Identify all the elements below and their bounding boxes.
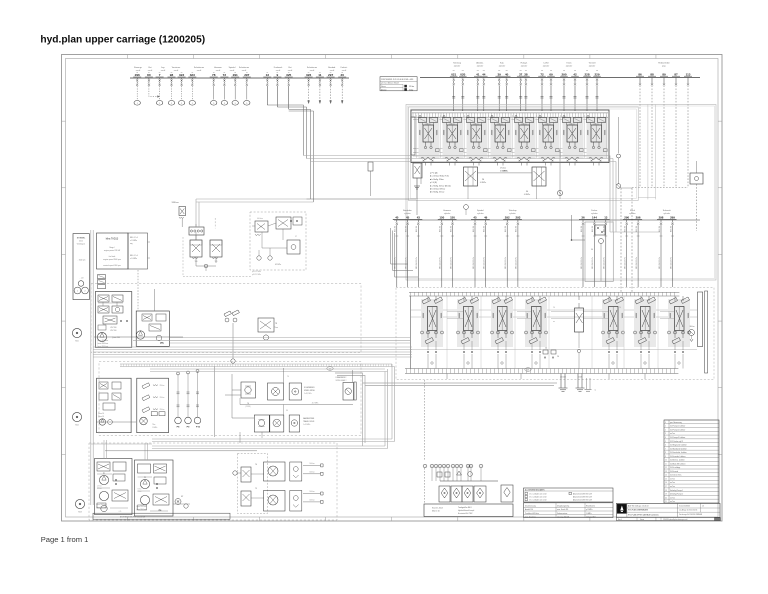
pilot group dashed boundary <box>182 237 184 276</box>
boundary notch lines right <box>647 105 649 200</box>
svg-text:av: av <box>234 72 236 74</box>
svg-text:MKS 334-39 kPa: MKS 334-39 kPa <box>450 257 452 269</box>
svg-text:290: 290 <box>624 215 629 219</box>
svg-text:MKS 334-39 kPa: MKS 334-39 kPa <box>592 257 594 269</box>
wire drop with hose coupling <box>136 86 138 100</box>
svg-text:12 l/min: 12 l/min <box>97 488 102 490</box>
small accumulator mid <box>368 162 373 171</box>
svg-text:144: 144 <box>592 215 597 219</box>
svg-text:1: 1 <box>77 291 78 293</box>
svg-text:Rev 0: Rev 0 <box>618 519 622 521</box>
svg-text:10: 10 <box>467 466 469 468</box>
block1 subplate boundary <box>409 107 639 201</box>
engine data box <box>128 233 148 269</box>
wire drop to coupler <box>246 86 248 100</box>
block2 outlet drop pair 3 <box>586 378 588 389</box>
valve block 2 bottom ladder rail <box>405 368 678 370</box>
pump band 2 dashed boundary <box>99 362 361 436</box>
svg-text:MKS 334: MKS 334 <box>659 226 661 232</box>
pump P5 extra internals <box>120 320 122 322</box>
valve section 5 block2 <box>608 296 610 301</box>
wire drop to coupler <box>234 86 236 100</box>
svg-text:Qmax 260: Qmax 260 <box>112 337 120 339</box>
svg-text:Verstell: Verstell <box>589 62 596 65</box>
oil cooler unit circled ports <box>423 464 427 467</box>
pilot supply elbow to coupling <box>196 198 311 200</box>
svg-text:MKS 334: MKS 334 <box>670 226 672 232</box>
svg-text:av: av <box>266 72 268 74</box>
valve section 4 block1 <box>491 116 493 118</box>
valve block 2 left end line <box>410 296 412 369</box>
svg-text:MKS 334-39 kPa: MKS 334-39 kPa <box>581 257 583 269</box>
block1 tank symbol left <box>414 186 420 189</box>
valve section 6 block1 <box>539 116 541 118</box>
fan check box 2 <box>290 491 302 512</box>
bottom return bus to pump band <box>152 438 392 440</box>
svg-text:zylinder: zylinder <box>477 212 484 215</box>
left pump group P5 housing <box>95 292 132 348</box>
pump band 1 dashed boundary <box>91 284 361 353</box>
tank staircase wire <box>335 373 365 446</box>
oil unit drop wires <box>431 468 433 481</box>
svg-text:1: 1 <box>159 103 160 105</box>
fan valve dashed group <box>238 454 268 514</box>
svg-text:MKS 334: MKS 334 <box>473 226 475 232</box>
wire drop with hose coupling <box>171 86 173 100</box>
svg-text:Qmax 260 l/min: Qmax 260 l/min <box>96 504 107 506</box>
valve section 7 block1 body <box>563 118 584 159</box>
svg-text:87: 87 <box>674 72 678 76</box>
top-left port header rail <box>130 77 349 79</box>
pilot wire down from rail <box>266 86 268 105</box>
svg-text:1 408: 1 408 <box>578 377 582 379</box>
svg-text:Page 1 from 1: Page 1 from 1 <box>41 535 89 544</box>
svg-text:34: 34 <box>286 410 288 412</box>
left supply riser wires <box>90 230 92 505</box>
svg-text:1: 1 <box>192 103 193 105</box>
svg-text:→ +Oil: → +Oil <box>79 278 85 280</box>
pump drive shaft line <box>94 336 183 338</box>
svg-text:020: 020 <box>460 72 465 76</box>
travel motor box row <box>254 415 269 432</box>
gauge left middle <box>72 412 81 421</box>
svg-text:MKS 334-39 kPa: MKS 334-39 kPa <box>505 257 507 269</box>
svg-text:■ b Umlauf 28 bar: ■ b Umlauf 28 bar <box>430 188 445 191</box>
svg-text:MKS 334: MKS 334 <box>636 226 638 232</box>
pilot elbow rails to risers <box>267 104 303 106</box>
block2 inter section link rails <box>447 311 463 313</box>
bottom pump group housing right <box>135 460 174 516</box>
svg-text:SWING DRIVE: SWING DRIVE <box>304 390 315 392</box>
svg-text:49: 49 <box>484 215 488 219</box>
svg-text:2: 2 <box>85 291 86 293</box>
valve block 2 top ladder rail <box>409 291 679 293</box>
svg-text:av: av <box>288 72 290 74</box>
bus tag label 1 <box>327 367 333 371</box>
valve section 6 block2 <box>640 296 642 301</box>
svg-text:MKS 334: MKS 334 <box>395 226 397 232</box>
solenoid valve left pair 2 <box>210 240 222 257</box>
svg-text:57: 57 <box>295 236 297 238</box>
valve block 2 dashed region boundary <box>396 288 714 380</box>
mid header rail line <box>394 219 700 221</box>
hose outlets fan 2 <box>303 493 321 495</box>
svg-text:pLS 2.1 MPa: pLS 2.1 MPa <box>252 274 261 276</box>
pump inlet strainer stack <box>98 275 106 279</box>
gauge port M1 <box>559 150 561 190</box>
svg-text:= 1.0 MPa: = 1.0 MPa <box>130 258 137 260</box>
svg-text:Vorsteuer: Vorsteuer <box>172 66 181 69</box>
svg-text:ventil: ventil <box>288 69 293 72</box>
svg-text:62 MPa: 62 MPa <box>275 264 281 266</box>
mid rail port 293 drop wire <box>517 220 519 223</box>
svg-text:1/1: 1/1 <box>702 505 704 507</box>
dashed pilot wire drop with arrow <box>341 86 343 102</box>
svg-text:13: 13 <box>604 215 608 219</box>
svg-text:21: 21 <box>665 501 667 503</box>
svg-text:9 l/min: 9 l/min <box>138 491 142 493</box>
svg-text:12 l/min: 12 l/min <box>97 486 102 488</box>
svg-text:26: 26 <box>557 356 559 358</box>
valve section 3 block1 <box>467 116 469 118</box>
svg-text:ventil: ventil <box>161 69 166 72</box>
svg-text:Maß 1:10: Maß 1:10 <box>432 511 440 513</box>
valve section 7 block2 body <box>668 299 690 347</box>
block1 right side drop <box>618 117 620 153</box>
svg-text:Fahrtsteuer: Fahrtsteuer <box>307 66 318 69</box>
aux valve B below block <box>532 167 546 186</box>
bottom group1 riser stubs <box>103 440 105 459</box>
svg-text:Tankgröße 400 l: Tankgröße 400 l <box>458 506 472 509</box>
pump P5 internal regulator valves <box>98 295 109 302</box>
svg-text:Qmax 260 l/min: Qmax 260 l/min <box>97 340 108 342</box>
aux valve A below block <box>464 167 478 186</box>
svg-text:36: 36 <box>581 215 585 219</box>
fan check box 1 <box>290 462 302 481</box>
svg-text:SCHWENKEN: SCHWENKEN <box>304 387 315 389</box>
title block <box>616 503 720 517</box>
svg-text:72: 72 <box>540 72 544 76</box>
valve section 2 block2 <box>463 296 465 301</box>
gauge port M2 <box>616 184 621 189</box>
block2 outlet drop pair 2 <box>577 374 579 389</box>
svg-text:av: av <box>319 72 321 74</box>
svg-text:1: 1 <box>137 103 138 105</box>
mid rail port 150 drop wire <box>452 220 454 223</box>
bottom band dashed boundary <box>89 443 337 520</box>
svg-text:ALLGEMEINE ANGABEN: ALLGEMEINE ANGABEN <box>525 489 545 492</box>
svg-text:LPV 260: LPV 260 <box>110 330 117 332</box>
wire drop to coupler <box>223 86 225 100</box>
fan motor box 1 <box>264 462 286 481</box>
valve block 2 internal rails <box>411 309 698 311</box>
svg-text:Hubzyl.: Hubzyl. <box>521 63 528 65</box>
mid rail port 43 drop wire <box>417 220 419 223</box>
valve section 4 block2 <box>531 296 533 301</box>
gauge above teleskop <box>464 205 469 210</box>
STIEBEL gearbox box <box>73 234 89 300</box>
legend parts table <box>664 420 719 503</box>
block2 end relief valve <box>689 330 695 336</box>
svg-text:fuel tank: fuel tank <box>109 255 116 258</box>
valve section 1 block2 <box>427 296 429 301</box>
tank riser left pair 1 <box>384 372 386 447</box>
valve section 2 block2 body <box>457 299 479 347</box>
valve section 1 block1 body <box>419 118 440 159</box>
svg-text:41: 41 <box>476 72 480 76</box>
pilot riser pair B <box>310 109 312 199</box>
svg-text:220 bar: 220 bar <box>160 385 165 387</box>
svg-text:17 (2x): 17 (2x) <box>500 168 506 170</box>
svg-text:1200205 hydraulikplan oberwage: 1200205 hydraulikplan oberwagen rev0 <box>663 519 688 521</box>
main control block boundary outer <box>406 105 716 281</box>
svg-text:avg: avg <box>130 243 133 245</box>
svg-text:5: 5 <box>224 103 225 105</box>
dashed pilot wire drop with arrow <box>330 86 332 102</box>
svg-text:Fahrtsteuer: Fahrtsteuer <box>194 66 205 69</box>
valve section 5 block2 body <box>602 299 624 347</box>
aux valve drops to return rail <box>536 186 538 199</box>
bottom group1 extra internals <box>97 503 106 508</box>
svg-text:44: 44 <box>482 72 486 76</box>
svg-text:av: av <box>330 72 332 74</box>
svg-text:pLS 2.1 MPa: pLS 2.1 MPa <box>252 271 261 273</box>
svg-text:MKS 334-39 kPa: MKS 334-39 kPa <box>670 257 672 269</box>
svg-text:42: 42 <box>329 369 331 371</box>
tank riser left pair 2 <box>391 364 393 439</box>
svg-text:Bst: Bst <box>149 66 152 69</box>
svg-text:74: 74 <box>287 376 289 378</box>
drawing frame outer border <box>62 55 723 522</box>
svg-text:5: 5 <box>235 103 236 105</box>
svg-text:MKS 334-39 kPa: MKS 334-39 kPa <box>604 257 606 269</box>
svg-text:Hammer: Hammer <box>443 210 451 212</box>
valve section 1 block2 body <box>421 299 443 347</box>
svg-text:MKS 334: MKS 334 <box>440 226 442 232</box>
svg-text:290: 290 <box>561 72 566 76</box>
mid rail port 299 drop wire <box>672 220 674 223</box>
svg-text:LPV 260: LPV 260 <box>110 327 117 329</box>
svg-text:zylinder: zylinder <box>454 65 461 68</box>
svg-text:43: 43 <box>417 215 421 219</box>
svg-text:Spindel: Spindel <box>477 210 484 212</box>
svg-text:av: av <box>246 72 248 74</box>
svg-text:zylinder: zylinder <box>499 65 506 68</box>
svg-text:40: 40 <box>395 215 399 219</box>
bottom pump group housing left <box>95 459 133 515</box>
wire drop with hose coupling <box>181 86 183 100</box>
block2 right end plate 1 <box>698 292 703 347</box>
pilot risers to mid rail <box>609 156 611 233</box>
swing cluster wires <box>231 374 233 418</box>
solenoid valve left pair 1 <box>190 240 202 257</box>
pump P5 sub block <box>136 311 169 346</box>
title block bottom strip <box>616 517 720 520</box>
svg-text:72ae: 72ae <box>152 424 156 426</box>
svg-text:1: 1 <box>181 103 182 105</box>
hydraulic notes box A <box>524 488 614 502</box>
svg-text:MKS 334-39 kPa: MKS 334-39 kPa <box>659 257 661 269</box>
svg-text:0.3MPa: 0.3MPa <box>480 182 486 184</box>
svg-text:ventil: ventil <box>216 69 221 72</box>
svg-text:43: 43 <box>527 370 529 372</box>
svg-text:Kab.: Kab. <box>500 63 505 65</box>
block2 port cluster mid <box>543 350 548 354</box>
svg-text:1: 1 <box>171 103 172 105</box>
svg-text:9 l/min: 9 l/min <box>138 489 142 491</box>
svg-text:av: av <box>171 72 173 74</box>
top-right port header rail <box>420 77 700 79</box>
gauge left lower <box>75 499 84 508</box>
svg-text:av: av <box>136 72 138 74</box>
svg-text:5: 5 <box>213 103 214 105</box>
P5 output rails to valve block <box>170 337 410 339</box>
pilot wire down from rail <box>276 86 278 107</box>
setting value 370 bar <box>405 85 407 87</box>
return filter cell 4 <box>474 486 486 502</box>
svg-text:Pruefdruck 63 l/min: Pruefdruck 63 l/min <box>525 513 539 515</box>
valve section 3 block1 body <box>467 118 488 159</box>
svg-text:220 bar: 220 bar <box>160 397 165 399</box>
svg-text:MKS 334-39 kPa: MKS 334-39 kPa <box>395 257 397 269</box>
mid rail connector bus <box>610 231 660 233</box>
svg-text:69: 69 <box>549 72 553 76</box>
svg-text:Fahrtsteuer: Fahrtsteuer <box>239 66 250 69</box>
svg-text:39: 39 <box>498 72 502 76</box>
title block grid <box>626 503 628 517</box>
svg-text:MKS 334-39 kPa: MKS 334-39 kPa <box>516 257 518 269</box>
valve section 4 block1 body <box>491 118 512 159</box>
svg-text:Drehw.: Drehw. <box>591 210 598 212</box>
pump P5 main pump circle <box>97 332 106 341</box>
svg-text:(C2-P4): (C2-P4) <box>245 406 251 408</box>
valve section 7 block1 <box>563 116 565 118</box>
svg-text:■ a Umlauf 30bar P-fix: ■ a Umlauf 30bar P-fix <box>430 175 449 178</box>
svg-text:Drehwerk: Drehwerk <box>274 67 283 69</box>
svg-text:Hammer: Hammer <box>214 67 222 69</box>
block1 left end plate <box>411 117 415 155</box>
svg-text:293: 293 <box>515 215 520 219</box>
travel gear box <box>289 415 299 432</box>
svg-text:DREHWERK 2: DREHWERK 2 <box>336 377 347 379</box>
mid rail port 292 drop wire <box>506 220 508 223</box>
svg-text:P2: P2 <box>144 477 146 479</box>
svg-text:MKS 334: MKS 334 <box>484 226 486 232</box>
svg-text:= 1.9 MPa: = 1.9 MPa <box>130 240 137 242</box>
valve section 2 block1 body <box>443 118 464 159</box>
svg-text:MKS 334: MKS 334 <box>581 226 583 232</box>
svg-text:→ 1500 rpm: → 1500 rpm <box>77 260 86 262</box>
valve section 3 block2 body <box>491 299 513 347</box>
svg-text:Löffel: Löffel <box>544 63 549 65</box>
svg-text:24: 24 <box>553 307 555 309</box>
svg-text:■ b Stellg. 35 bar: ■ b Stellg. 35 bar <box>430 191 445 194</box>
pilot wire down from rail <box>288 86 290 109</box>
svg-text:0.3MPa: 0.3MPa <box>524 194 530 196</box>
svg-text:p Pst (A): p Pst (A) <box>430 172 438 175</box>
svg-text:MKS 334-39 kPa: MKS 334-39 kPa <box>625 257 627 269</box>
pump group 2 housing P8-P10 <box>97 378 132 433</box>
svg-text:Teleskop: Teleskop <box>453 63 462 65</box>
svg-text:MKS 334-39 kPa: MKS 334-39 kPa <box>484 257 486 269</box>
wire drop with hose coupling <box>159 86 161 100</box>
mid rail left elbow wires <box>391 228 408 264</box>
oil unit collector rail <box>440 480 498 482</box>
valve block 1 housing <box>411 110 609 163</box>
svg-text:MKS 334: MKS 334 <box>592 226 594 232</box>
svg-text:299: 299 <box>670 215 675 219</box>
valve section 3 block2 <box>497 296 499 301</box>
svg-text:45: 45 <box>473 215 477 219</box>
svg-text:150: 150 <box>450 215 455 219</box>
svg-text:1.1MPa: 1.1MPa <box>152 427 157 429</box>
under block2 tank bus <box>363 382 558 384</box>
aux valves connection rail <box>478 172 533 174</box>
mid rail port 296 drop wire <box>637 220 639 223</box>
boost valve small <box>258 318 274 332</box>
svg-text:Teleskop: Teleskop <box>509 210 518 212</box>
svg-text:5: 5 <box>246 103 247 105</box>
svg-text:75: 75 <box>255 488 257 490</box>
svg-text:Bandab.: Bandab. <box>328 67 336 69</box>
mid rail port 45 drop wire <box>474 220 476 223</box>
setting value 30 bar <box>405 88 407 90</box>
svg-text:24: 24 <box>545 348 547 350</box>
svg-text:av: av <box>181 72 183 74</box>
dashed pilot wire drop with arrow <box>319 86 321 102</box>
svg-text:228: 228 <box>584 72 589 76</box>
svg-text:0.25: 0.25 <box>119 511 122 513</box>
pilot rail three wires <box>304 155 611 157</box>
tank pilot dashed wire <box>424 380 426 461</box>
pilot return rail <box>416 199 418 215</box>
svg-text:74: 74 <box>255 464 257 466</box>
LS dashed lines to lower block <box>620 188 622 292</box>
svg-text:MKS 334-39 kPa: MKS 334-39 kPa <box>636 257 638 269</box>
pilot unit boundary box <box>585 222 613 282</box>
svg-text:4512: 4512 <box>79 241 83 243</box>
svg-text:78: 78 <box>275 323 277 325</box>
svg-text:M7: M7 <box>181 496 183 498</box>
svg-text:ventil: ventil <box>174 69 179 72</box>
svg-text:av: av <box>213 72 215 74</box>
fan motor box 2 <box>264 491 286 512</box>
mid rail port 13 drop wire <box>605 220 607 223</box>
svg-text:1x 35 MPa: 1x 35 MPa <box>303 424 310 426</box>
wire drop with hose coupling <box>191 86 193 100</box>
svg-text:ventil: ventil <box>136 69 141 72</box>
svg-text:p 12MPa: p 12MPa <box>586 509 592 511</box>
svg-text:av: av <box>341 72 343 74</box>
svg-text:Stand 1.2004: Stand 1.2004 <box>432 507 443 510</box>
valve section 8 block1 body <box>587 118 608 159</box>
breather filter box <box>501 485 513 502</box>
svg-text:zylinder: zylinder <box>477 65 484 68</box>
svg-text:M11: M11 <box>75 341 78 343</box>
svg-text:Abstütz.: Abstütz. <box>476 62 484 65</box>
mid rail port 144 drop wire <box>593 220 595 223</box>
mid rail port 298 drop wire <box>660 220 662 223</box>
svg-text:Steuergr.: Steuergr. <box>134 66 143 69</box>
valve section 6 block2 body <box>634 299 656 347</box>
svg-text:34: 34 <box>591 249 593 251</box>
valve section 1 block1 <box>419 116 421 118</box>
svg-text:MKL 4.2 +0: MKL 4.2 +0 <box>130 255 138 257</box>
block2 center pressure valve <box>575 308 584 332</box>
svg-text:av: av <box>191 72 193 74</box>
pilot valves tail wires <box>195 235 197 240</box>
svg-text:max. Druck bar: max. Druck bar <box>525 517 536 519</box>
